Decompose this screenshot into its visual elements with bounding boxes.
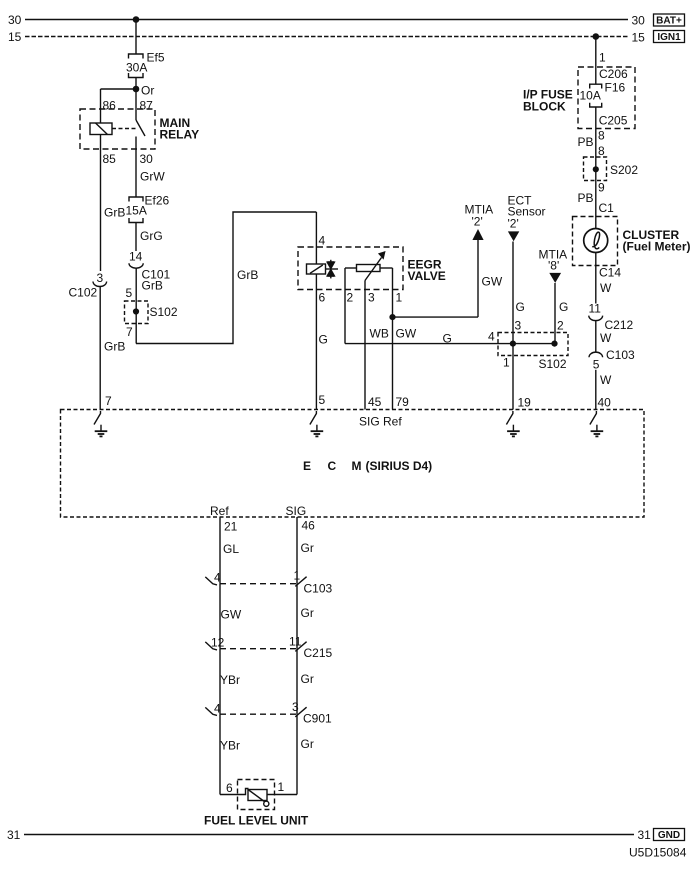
svg-text:7: 7 bbox=[105, 394, 112, 408]
svg-text:PB: PB bbox=[578, 191, 594, 205]
svg-text:GrB: GrB bbox=[237, 268, 258, 282]
svg-text:M: M bbox=[352, 459, 362, 473]
svg-text:GND: GND bbox=[658, 830, 680, 841]
svg-text:30: 30 bbox=[140, 152, 154, 166]
svg-text:BAT+: BAT+ bbox=[656, 16, 682, 27]
svg-text:SIG Ref: SIG Ref bbox=[359, 415, 402, 429]
svg-text:G: G bbox=[516, 300, 525, 314]
svg-text:C212: C212 bbox=[605, 318, 634, 332]
svg-text:W: W bbox=[600, 331, 612, 345]
svg-text:40: 40 bbox=[598, 396, 612, 410]
svg-text:S102: S102 bbox=[539, 357, 567, 371]
svg-text:(SIRIUS D4): (SIRIUS D4) bbox=[366, 459, 433, 473]
svg-text:30A: 30A bbox=[126, 61, 147, 75]
svg-text:PB: PB bbox=[578, 135, 594, 149]
svg-text:GW: GW bbox=[396, 327, 417, 341]
svg-text:1: 1 bbox=[599, 51, 606, 65]
svg-text:Ef5: Ef5 bbox=[147, 51, 165, 65]
svg-text:BLOCK: BLOCK bbox=[523, 100, 566, 114]
svg-text:21: 21 bbox=[224, 520, 238, 534]
svg-text:Or: Or bbox=[141, 84, 154, 98]
svg-text:Gr: Gr bbox=[301, 672, 314, 686]
svg-text:9: 9 bbox=[598, 181, 605, 195]
svg-text:79: 79 bbox=[396, 395, 410, 409]
svg-text:S102: S102 bbox=[150, 305, 178, 319]
svg-text:IGN1: IGN1 bbox=[657, 32, 681, 43]
svg-text:'2': '2' bbox=[472, 215, 483, 229]
svg-text:SIG: SIG bbox=[286, 504, 307, 518]
svg-text:Gr: Gr bbox=[301, 541, 314, 555]
svg-text:15A: 15A bbox=[126, 204, 147, 218]
svg-text:5: 5 bbox=[593, 358, 600, 372]
svg-text:GW: GW bbox=[482, 275, 503, 289]
svg-text:4: 4 bbox=[214, 702, 221, 716]
svg-text:5: 5 bbox=[319, 393, 326, 407]
svg-text:FUEL LEVEL UNIT: FUEL LEVEL UNIT bbox=[204, 814, 309, 828]
svg-text:15: 15 bbox=[632, 31, 646, 45]
svg-text:31: 31 bbox=[638, 828, 652, 842]
svg-text:G: G bbox=[443, 332, 452, 346]
svg-text:GW: GW bbox=[221, 608, 242, 622]
svg-text:F16: F16 bbox=[605, 81, 626, 95]
svg-text:12: 12 bbox=[211, 636, 225, 650]
svg-text:4: 4 bbox=[319, 234, 326, 248]
svg-text:86: 86 bbox=[103, 99, 117, 113]
svg-text:'2': '2' bbox=[508, 217, 519, 231]
svg-text:11: 11 bbox=[589, 302, 602, 316]
svg-text:5: 5 bbox=[126, 286, 133, 300]
svg-text:2: 2 bbox=[347, 291, 354, 305]
svg-text:Ef26: Ef26 bbox=[145, 194, 170, 208]
svg-text:30: 30 bbox=[8, 13, 22, 27]
svg-text:GrB: GrB bbox=[104, 206, 125, 220]
svg-text:8: 8 bbox=[598, 129, 605, 143]
svg-text:8: 8 bbox=[598, 144, 605, 158]
svg-text:4: 4 bbox=[214, 571, 221, 585]
svg-text:45: 45 bbox=[368, 395, 382, 409]
svg-text:11: 11 bbox=[289, 635, 302, 649]
svg-text:3: 3 bbox=[368, 291, 375, 305]
svg-text:W: W bbox=[600, 281, 612, 295]
svg-text:14: 14 bbox=[129, 250, 143, 264]
svg-text:46: 46 bbox=[302, 519, 316, 533]
svg-text:C14: C14 bbox=[599, 266, 621, 280]
svg-text:(Fuel Meter): (Fuel Meter) bbox=[623, 240, 691, 254]
svg-text:RELAY: RELAY bbox=[160, 128, 200, 142]
svg-text:1: 1 bbox=[278, 780, 285, 794]
svg-text:GrB: GrB bbox=[104, 340, 125, 354]
svg-text:19: 19 bbox=[518, 396, 532, 410]
svg-text:C205: C205 bbox=[599, 114, 628, 128]
svg-text:Gr: Gr bbox=[301, 606, 314, 620]
svg-text:GrG: GrG bbox=[140, 229, 163, 243]
svg-text:E: E bbox=[303, 459, 311, 473]
svg-text:GrB: GrB bbox=[142, 279, 163, 293]
svg-text:3: 3 bbox=[97, 271, 104, 285]
svg-text:3: 3 bbox=[292, 700, 299, 714]
svg-text:7: 7 bbox=[126, 325, 133, 339]
svg-text:87: 87 bbox=[140, 99, 154, 113]
svg-text:GrW: GrW bbox=[140, 170, 165, 184]
svg-text:W: W bbox=[600, 373, 612, 387]
svg-text:C103: C103 bbox=[304, 582, 333, 596]
svg-text:3: 3 bbox=[515, 319, 522, 333]
svg-text:C215: C215 bbox=[304, 646, 333, 660]
svg-text:GL: GL bbox=[223, 542, 239, 556]
svg-text:2: 2 bbox=[557, 319, 564, 333]
svg-text:YBr: YBr bbox=[220, 673, 240, 687]
svg-text:C1: C1 bbox=[599, 201, 615, 215]
svg-text:15: 15 bbox=[8, 30, 22, 44]
svg-text:Gr: Gr bbox=[301, 737, 314, 751]
svg-text:'8': '8' bbox=[548, 259, 559, 273]
svg-text:C206: C206 bbox=[599, 67, 628, 81]
svg-text:Ref: Ref bbox=[210, 504, 229, 518]
svg-text:G: G bbox=[559, 300, 568, 314]
svg-text:C: C bbox=[328, 459, 337, 473]
svg-text:4: 4 bbox=[488, 330, 495, 344]
svg-text:6: 6 bbox=[319, 291, 326, 305]
svg-text:31: 31 bbox=[7, 828, 21, 842]
svg-text:G: G bbox=[319, 333, 328, 347]
svg-text:U5D15084: U5D15084 bbox=[629, 846, 687, 860]
svg-text:85: 85 bbox=[103, 152, 117, 166]
svg-text:6: 6 bbox=[226, 781, 233, 795]
svg-text:YBr: YBr bbox=[220, 739, 240, 753]
svg-text:C103: C103 bbox=[606, 348, 635, 362]
svg-text:S202: S202 bbox=[610, 163, 638, 177]
svg-text:30: 30 bbox=[632, 14, 646, 28]
svg-text:C901: C901 bbox=[303, 712, 332, 726]
svg-text:1: 1 bbox=[294, 569, 301, 583]
svg-text:C102: C102 bbox=[69, 286, 98, 300]
svg-text:VALVE: VALVE bbox=[408, 269, 446, 283]
svg-text:WB: WB bbox=[370, 327, 389, 341]
svg-text:1: 1 bbox=[396, 291, 403, 305]
svg-text:10A: 10A bbox=[580, 89, 601, 103]
svg-text:1: 1 bbox=[503, 356, 510, 370]
